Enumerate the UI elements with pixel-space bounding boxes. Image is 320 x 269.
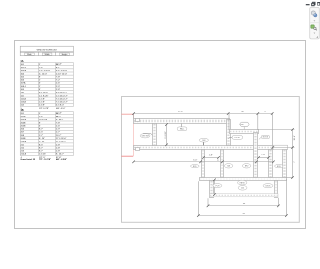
great room tag leader arrow [143, 134, 152, 136]
svg-text:2'-8": 2'-8" [56, 151, 60, 153]
navbar corner arrow [316, 36, 318, 38]
red match line top [121, 113, 133, 115]
wall bottom wing left vertical [202, 150, 205, 178]
svg-text:5'-0": 5'-0" [193, 160, 197, 162]
svg-text:2'-8": 2'-8" [56, 147, 60, 149]
svg-text:1'-6" x 26'-0": 1'-6" x 26'-0" [39, 70, 51, 72]
steering wheel icon [311, 11, 317, 17]
schedule title box [20, 46, 73, 52]
room tag bed1 [191, 165, 200, 168]
room tag great room [140, 134, 150, 138]
svg-text:202B: 202B [21, 116, 26, 118]
nook tag leader [259, 137, 261, 139]
wall porch left vertical [210, 181, 214, 198]
svg-text:8'-6 26'-0"-7": 8'-6 26'-0"-7" [56, 92, 68, 94]
navbar divider [310, 22, 319, 24]
svg-text:Mark: Mark [27, 53, 31, 56]
room tag dining [199, 138, 208, 142]
svg-text:4'- 60'-7": 4'- 60'-7" [56, 119, 64, 121]
svg-text:7'-8": 7'-8" [56, 122, 60, 124]
wall bottom wing bottom band [200, 178, 287, 181]
svg-text:2'-6": 2'-6" [56, 83, 60, 85]
svg-text:8'- 26": 8'- 26" [39, 138, 45, 140]
svg-text:2'-9": 2'-9" [56, 86, 60, 88]
svg-text:8'-1 26'-0": 8'-1 26'-0" [39, 92, 49, 94]
red match line bottom [121, 155, 133, 157]
svg-text:461'- 8'-0": 461'- 8'-0" [56, 108, 66, 110]
svg-text:BR3: BR3 [277, 166, 281, 168]
svg-text:DECK: DECK [266, 185, 272, 187]
svg-text:210-B: 210-B [21, 141, 27, 143]
svg-text:8'-5": 8'-5" [39, 144, 43, 146]
svg-text:2'-5": 2'-5" [39, 132, 43, 134]
room tag nook [261, 135, 269, 138]
dimension chain across wing [134, 161, 274, 163]
svg-text:5'-7": 5'-7" [56, 67, 60, 69]
wall middle band [134, 146, 273, 150]
svg-text:113-B: 113-B [21, 102, 27, 104]
svg-text:26'-7": 26'-7" [56, 116, 62, 118]
svg-text:1'-5 8": 1'-5 8" [39, 98, 45, 100]
wall bottom wing right vertical [283, 150, 287, 178]
wall top band [134, 119, 230, 124]
window box top left [136, 119, 140, 122]
svg-text:2'- 55": 2'- 55" [39, 141, 45, 143]
wall porch right vertical [275, 181, 278, 198]
svg-text:1'-8": 1'-8" [261, 154, 265, 156]
svg-text:2'-7": 2'-7" [56, 132, 60, 134]
svg-text:461'- 8 5/8": 461'- 8 5/8" [56, 158, 67, 161]
svg-text:26'-7": 26'-7" [56, 64, 62, 66]
restore button [312, 2, 315, 5]
svg-text:20'-7": 20'-7" [56, 135, 62, 137]
wall top-right vertical [227, 120, 231, 146]
schedule grand total [20, 158, 66, 161]
schedule summary row [21, 157, 62, 159]
view crop region [122, 97, 300, 223]
schedule row text [21, 113, 67, 156]
svg-text:7'-5 26'-0"-7": 7'-5 26'-0"-7" [56, 98, 68, 100]
svg-text:8'- 26'-7": 8'- 26'-7" [56, 154, 64, 156]
minimize button [306, 4, 310, 5]
svg-text:5'- 10'-0": 5'- 10'-0" [39, 73, 47, 75]
svg-text:102-3: 102-3 [21, 67, 27, 69]
svg-text:1'-6": 1'-6" [39, 67, 43, 69]
room tag bed2 [242, 164, 250, 168]
header cell boxes [25, 53, 70, 55]
room tag bath [224, 164, 232, 168]
svg-text:103-B: 103-B [21, 70, 27, 72]
dimension right side lines [258, 130, 295, 178]
dimension interior vertical 9ft [166, 124, 168, 145]
svg-text:Height: Height [62, 53, 68, 56]
svg-text:27'-1 26'-0": 27'-1 26'-0" [56, 138, 67, 140]
svg-text:8'-7": 8'-7" [39, 151, 43, 153]
svg-text:108-1: 108-1 [21, 86, 27, 88]
svg-text:1'-8": 1'-8" [209, 154, 213, 156]
svg-text:2'-9": 2'-9" [56, 129, 60, 131]
wall porch bottom dashed band [210, 194, 278, 197]
wall top-right horizontal band [230, 130, 259, 134]
dimension small 1-8 right [259, 157, 269, 159]
svg-text:205B: 205B [21, 125, 26, 127]
svg-text:PNTRY: PNTRY [234, 137, 241, 139]
wall vertical right of kitchen [254, 133, 258, 178]
svg-text:2'-10" 10'-0": 2'-10" 10'-0" [56, 73, 67, 75]
svg-text:Width: Width [45, 53, 50, 56]
svg-text:112-B: 112-B [21, 98, 27, 100]
svg-text:4'-5 8'-0": 4'-5 8'-0" [56, 105, 64, 107]
wall interior vertical left wing [153, 124, 157, 146]
svg-text:2'-7": 2'-7" [39, 135, 43, 137]
svg-text:107A: 107A [21, 82, 26, 85]
svg-text:NOOK: NOOK [263, 137, 269, 139]
svg-text:2'-6": 2'-6" [39, 116, 43, 118]
schedule row text [21, 64, 69, 107]
svg-text:7'-8": 7'-8" [56, 76, 60, 78]
sheet border [15, 41, 306, 229]
schedule grid [20, 63, 73, 107]
svg-text:2'-8": 2'-8" [56, 89, 60, 91]
svg-text:171'-5 7/8": 171'-5 7/8" [39, 108, 49, 110]
svg-text:1'-5 8": 1'-5 8" [39, 102, 45, 104]
svg-text:17'-8": 17'-8" [178, 111, 184, 113]
close button [317, 2, 320, 6]
svg-text:8'-7": 8'-7" [39, 147, 43, 149]
schedule grid [20, 112, 73, 156]
dimension wing width 54 [198, 179, 286, 215]
svg-text:204: 204 [241, 188, 244, 190]
red match line vertical [133, 114, 135, 156]
dimension porch height [214, 180, 216, 195]
room tag bed3 [275, 164, 283, 167]
svg-text:BR1: BR1 [193, 166, 197, 168]
svg-text:26'-7": 26'-7" [56, 113, 62, 115]
svg-text:7'-2": 7'-2" [56, 80, 60, 82]
schedule summary row [21, 108, 66, 110]
dimension tick at band end [272, 146, 275, 149]
wheel dropdown arrow [314, 20, 316, 21]
svg-text:27'-1 26'-7": 27'-1 26'-7" [56, 141, 67, 143]
dimension top texts [178, 111, 267, 113]
wall middle band right extension [273, 145, 288, 150]
wall bottom wing vertical 3 [269, 150, 273, 178]
svg-text:2'-6": 2'-6" [56, 125, 60, 127]
svg-text:2'-6 26": 2'-6 26" [39, 154, 46, 156]
svg-text:1A: 1A [20, 60, 23, 63]
room tag kitchen hexagon [240, 122, 250, 129]
dimension small 1-8 left [204, 157, 219, 159]
room tag hall [177, 127, 187, 131]
pantry tag leader [228, 137, 232, 138]
svg-text:771'- 10 7/8": 771'- 10 7/8" [39, 159, 51, 161]
schedule header row [20, 52, 73, 55]
svg-text:9'-2 1/2": 9'-2 1/2" [165, 131, 167, 139]
svg-text:2'-8": 2'-8" [56, 144, 60, 146]
wall bottom wing vertical 2 [221, 150, 224, 178]
svg-text:105: 105 [240, 124, 243, 126]
room tag porch right [263, 184, 273, 188]
svg-text:WINDOW SCHEDULE: WINDOW SCHEDULE [37, 49, 58, 51]
svg-text:204B: 204B [21, 122, 26, 124]
svg-text:2'-1 8'-26": 2'-1 8'-26" [39, 95, 49, 97]
svg-text:HALL: HALL [180, 128, 185, 131]
dimension porch width 44 [208, 198, 279, 206]
svg-text:214-B: 214-B [21, 154, 27, 156]
svg-text:7'-5 26'-0"-7": 7'-5 26'-0"-7" [56, 102, 68, 104]
svg-text:1'-5 26'-0"-7": 1'-5 26'-0"-7" [56, 95, 68, 97]
svg-text:GRT RM: GRT RM [142, 135, 150, 137]
svg-text:1B: 1B [20, 109, 23, 112]
svg-text:BR2: BR2 [245, 166, 249, 168]
zoom dropdown arrow [314, 33, 316, 34]
room tag porch left [213, 184, 222, 188]
svg-text:10'-6 5/8": 10'-6 5/8" [39, 119, 48, 121]
dining tag leader [203, 142, 205, 145]
room tag pantry [232, 136, 243, 140]
hall tag leader [180, 124, 182, 127]
zoom icon [311, 25, 317, 30]
svg-text:PATIO: PATIO [240, 181, 246, 184]
navigation bar panel [310, 7, 320, 39]
svg-text:203-B: 203-B [21, 119, 27, 121]
svg-text:16'-6": 16'-6" [294, 135, 296, 141]
svg-text:4'-6" x 26'-0": 4'-6" x 26'-0" [56, 70, 68, 72]
room tag porch center lower [238, 186, 247, 191]
svg-text:209B: 209B [21, 138, 26, 140]
room tag porch center upper [238, 180, 247, 185]
window box middle left [136, 148, 140, 151]
svg-text:2'-6 8": 2'-6 8" [39, 105, 45, 107]
svg-text:Grand total: 25: Grand total: 25 [20, 158, 36, 161]
dimension top line [134, 114, 273, 146]
svg-text:8'-7": 8'-7" [39, 129, 43, 131]
